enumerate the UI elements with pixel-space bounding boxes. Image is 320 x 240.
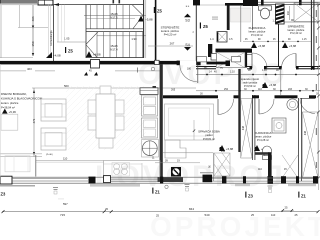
armchair 1 [41,99,66,121]
chimney shaft hatched black [276,4,285,24]
top-left window symbol [38,0,53,5]
door mark S3 up [184,6,191,23]
KUPAONICA room label [249,26,266,37]
X hatch strip above bottom wall left of bedroom-terrace [214,153,230,176]
column white box on wall [91,60,100,69]
door label Z6 [200,23,209,30]
svg-text:254: 254 [224,88,229,91]
washing machine box [272,118,286,133]
vertical dim line x289 [289,6,291,20]
svg-text:25: 25 [295,213,298,217]
window label Z5 left [65,47,74,54]
jamb x160 [160,177,163,184]
jambs right side [222,176,318,183]
planter rect left [5,156,30,172]
svg-text:844: 844 [189,207,194,211]
svg-text:S3: S3 [185,19,189,23]
svg-text:+5,36: +5,36 [9,110,17,114]
shaft box with X [217,32,227,43]
wardrobe black right bar [245,52,247,68]
main bottom dimension line [2,211,318,213]
svg-text:496: 496 [31,16,35,21]
svg-text:+5,88: +5,88 [289,44,297,48]
left edge faint facade line [0,64,2,177]
stove 4 circles [112,163,130,177]
stair treads lower flight [97,32,143,58]
thin wall line pair y53 left of bath door [240,52,252,54]
wardrobe steps bedroom [165,140,186,158]
corridor double line x48-50 [47,5,49,58]
thin top line x200-226 [200,4,226,6]
door mark S4 down [184,43,191,51]
svg-text:N17,5: N17,5 [110,15,118,19]
8/20 tick smudges [53,184,273,194]
level marker +5,88 bath top [251,42,257,48]
bedroom sofa outline [165,104,214,140]
stair rail lines flight1 [84,15,146,17]
bedroom terrace edge [163,152,213,154]
door arc bathroom top [252,53,267,68]
kitchen top counter [140,88,158,95]
bedroom top wall y95 [163,95,218,98]
rotated dim smudges right edge [316,10,317,168]
svg-text:E.S: E.S [186,6,190,8]
svg-text:471: 471 [32,118,36,123]
dim texts under wall right [204,67,279,74]
bathroom top wall segments [252,95,259,98]
right outer wall double x311-314 [310,0,312,70]
svg-text:P=4,28 m²: P=4,28 m² [257,138,269,142]
white column box x104 [104,176,111,183]
closet lines x61 x64 [61,5,63,42]
svg-text:P=6,20 m²: P=6,20 m² [164,32,177,36]
svg-text:25: 25 [156,214,159,218]
svg-text:Z3: Z3 [248,193,254,198]
vertical dimension line x33 with texts 496/150 [31,5,35,56]
dim chain y74.5 [196,74,320,76]
dining table [88,86,124,148]
wall stub x36 [35,155,37,177]
svg-text:komunikacija: komunikacija [49,30,53,46]
void strip with X right [303,112,319,178]
svg-text:parket: parket [205,133,212,137]
thick wall stub x268 bottom [268,152,272,180]
svg-text:203: 203 [288,88,293,91]
wardrobe black top bar [216,49,253,53]
bedroom dim line x194 [193,120,195,140]
tiny dims near island [152,157,180,163]
svg-text:540: 540 [205,213,210,217]
small circle marker under band [165,185,168,188]
tick on line y70.9 [137,68,139,73]
svg-text:25: 25 [251,213,254,217]
glazing lines mid [111,178,161,180]
top wall segment thick x225-258 [225,3,258,6]
big door arc hall [180,65,198,84]
svg-text:keram. pločice: keram. pločice [249,29,266,33]
bedroom label [198,129,220,141]
svg-text:keram. pločice: keram. pločice [288,28,305,32]
dims bottom right rooms [258,168,287,171]
wall x196 [195,0,197,62]
top window lines right [258,1,320,3]
island counter outline [104,161,161,181]
wall line x252 [252,6,254,30]
top line with arrow [53,4,86,6]
door arc storage top [282,54,297,69]
dim chain y88 left with 560 [32,87,196,89]
svg-text:kerami. pločice: kerami. pločice [161,29,179,33]
corridor south wall segments y66-69 [196,67,320,69]
svg-text:(P=30): (P=30) [46,154,53,156]
white box on wall top of kitchen [155,60,160,64]
svg-text:110: 110 [258,168,262,171]
counter unit [142,118,158,138]
P=1,05 smudge [200,172,213,173]
wall line x53.5 with vertical label komunikacija [53,5,55,62]
door opening white gap in main wall [180,61,196,66]
window label Z1 right [298,192,306,199]
svg-text:spavaće mjesto: spavaće mjesto [241,77,260,81]
svg-text:265: 265 [171,89,176,92]
left edge wall line [0,5,2,58]
glazing lines right of 212 [212,178,313,180]
svg-text:110: 110 [258,88,262,91]
glazing lines left [12,178,88,180]
svg-text:448: 448 [304,130,307,135]
wardrobe box with X [217,52,245,67]
slanted ticks on main line [2,210,320,213]
svg-text:+5,88: +5,88 [269,83,277,87]
svg-text:Z5: Z5 [68,49,74,54]
svg-text:448: 448 [242,125,245,130]
winder chevron upper right [132,5,143,16]
svg-text:15x25: 15x25 [110,12,118,16]
svg-text:180: 180 [187,67,192,70]
level marker +4,08 stair [86,51,92,57]
svg-text:1.05: 1.05 [64,37,70,41]
svg-text:Z1: Z1 [155,189,161,194]
armchair 2 [41,128,66,150]
rug diagonal hatch [2,86,270,150]
stair mid landing lines [86,28,144,30]
level marker +5,88 stair [138,16,144,22]
bedroom door arc [218,99,234,115]
stair treads upper flight [91,5,130,29]
level marker +5,88 storage top [282,42,288,48]
svg-text:25: 25 [285,205,288,209]
svg-text:715: 715 [60,213,65,217]
stair rail line flight2 [97,35,146,37]
svg-text:210: 210 [287,10,290,15]
washbasin circle [287,99,298,110]
window label Z3 right [245,192,253,199]
svg-text:S4: S4 [185,43,189,47]
SPREMISTE room label [288,23,305,35]
window jamb ticks top [261,0,264,5]
svg-text:1.15: 1.15 [302,39,307,41]
svg-text:110: 110 [271,213,276,217]
line y22 with dim 90 [284,21,318,23]
stair right wall double [143,0,145,58]
corridor room label right [241,77,260,88]
left window frame box [0,176,12,184]
counter line y163 [104,163,143,165]
STEPENISTE room label [161,25,180,37]
facade band outer lines [0,176,318,178]
svg-text:N17,4: N17,4 [110,48,118,52]
drain black square with circle [171,167,181,177]
bathroom door arc [259,99,274,114]
WATERMARKS [95,58,288,193]
svg-text:P=2,43 m²: P=2,43 m² [290,31,302,35]
svg-text:Z1: Z1 [301,193,307,198]
svg-text:KUPAONICA: KUPAONICA [255,131,272,135]
svg-text:1.10: 1.10 [262,69,267,72]
line y42 [57,41,86,43]
thin wall line x240 [240,5,242,42]
svg-text:keram. pločice: keram. pločice [1,101,19,105]
svg-text:+4,08: +4,08 [53,54,61,58]
void with X top right [294,3,318,22]
corridor wall jambs [250,66,315,69]
top edge tick marks above stair [113,0,115,3]
winder chevron lower left [86,32,98,45]
small tick kitchen top [153,86,157,88]
svg-text:SPAVAĆA SOBA: SPAVAĆA SOBA [198,129,220,134]
white door box above wall x231 [232,57,241,62]
wall under toilet [255,152,269,155]
level marker +5,88 bedroom [219,145,225,151]
level marker +5,36 living [2,109,8,114]
tiny dim E7H [212,17,218,18]
svg-text:P=38,04 m²: P=38,04 m² [1,106,15,110]
white door box above wall x196 [197,57,207,62]
svg-text:+5,88: +5,88 [258,44,266,48]
svg-text:KUHINJA S BLAGOVAONICOM: KUHINJA S BLAGOVAONICOM [1,96,43,100]
svg-text:Z6: Z6 [203,24,209,29]
stair outer box [86,5,144,58]
horizontal line y27.5 [18,27,48,29]
X hatch strip x282-298 [282,155,298,178]
small circle marker under wall [151,67,155,71]
dim line y162.8 right of island [155,162,200,164]
svg-text:267: 267 [170,42,175,46]
bedroom east wall [238,69,240,152]
svg-text:KUPAONICA: KUPAONICA [249,26,266,30]
wall segment y62 x206-226 [207,62,227,65]
hatched wall band top-left [0,0,37,4]
level marker +5,88 corridor [262,82,268,88]
svg-text:597: 597 [63,202,68,206]
black window block x202 [203,175,213,183]
level marker +4,08 left [46,52,52,58]
side table left wall [1,114,18,130]
dim chain y90.5 right [196,88,320,92]
svg-text:+5,88: +5,88 [226,147,234,151]
right room door arc [300,99,315,114]
bathroom east wall double [298,98,300,181]
toilet top bathroom [259,6,272,19]
tick pair black with 45 [84,72,88,76]
living room label block [1,92,43,110]
right vertical dim line [317,2,319,190]
bathroom label right [255,131,272,142]
svg-text:DNEVNI BORAVAK,: DNEVNI BORAVAK, [1,92,27,96]
svg-text:STEPENIŠTE: STEPENIŠTE [161,25,180,30]
black jamb x88 [89,177,96,184]
svg-text:463: 463 [27,67,32,71]
bathroom west wall double [252,95,254,160]
dim row y41 top bathrooms [243,40,311,42]
thin line top-left under band [0,4,37,6]
svg-text:Z5: Z5 [157,9,163,14]
fridge unit [142,95,158,116]
dims below main line [60,213,298,218]
divider wall kupaonica/spremiste [278,24,280,66]
counter dark strip bottom [158,177,184,182]
svg-text:1.4: 1.4 [210,38,214,41]
svg-text:4.5: 4.5 [229,38,233,41]
dim chain y95 ticks right [200,93,319,96]
svg-text:1.10: 1.10 [230,71,235,74]
svg-text:560: 560 [64,84,69,88]
svg-text:radni prostor: radni prostor [243,80,258,84]
svg-text:150: 150 [31,41,35,46]
pale floor rect [231,8,251,22]
svg-text:110: 110 [63,157,68,161]
horizontal line y57.5 left [0,57,33,59]
stairwell east wall x155 [155,0,157,62]
black wall block top x243 [243,0,258,6]
vertical line x19 [19,5,21,28]
corridor divider line x280.8 [280,69,282,95]
kitchen wall x160 dark [160,64,163,181]
level marker +5,88 bathroom right [254,145,260,151]
left terrace double lines [0,153,42,155]
terrace edge line y153 [36,160,104,162]
small white box on black bar [211,54,217,61]
balcony slab gray bars below band [90,184,140,187]
svg-text:+4,08: +4,08 [93,53,101,57]
svg-text:keram. pločice: keram. pločice [255,135,272,139]
void strip with X left of bathroom [241,98,252,158]
svg-text:LOVOPROJ: LOVOPROJ [95,160,286,193]
window label Z5 top [154,7,163,14]
vertical line x58 [57,5,59,42]
jamb block x225 [226,61,231,67]
short line below band left [0,185,35,187]
toilet bottom [262,146,271,160]
sink circle with cross [142,140,159,158]
svg-text:SPREMIŠTE: SPREMIŠTE [288,23,305,28]
black corner block top x193 [193,0,200,5]
window label Z1 mid [152,188,160,195]
door jambs main wall [177,61,180,66]
main wall y62 x0-196 [0,61,196,65]
svg-text:+5,88: +5,88 [145,18,153,22]
svg-text:Z3: Z3 [1,192,7,197]
upper wall x228 dark [227,3,230,30]
svg-text:1.90: 1.90 [131,37,137,41]
svg-text:15x25: 15x25 [110,44,118,48]
svg-text:P=4,30 m²: P=4,30 m² [251,33,263,37]
svg-text:P=8,81 m²: P=8,81 m² [203,137,215,141]
vertical dim x32 with 471 [32,88,36,157]
black bar left of wardrobe [208,44,212,57]
